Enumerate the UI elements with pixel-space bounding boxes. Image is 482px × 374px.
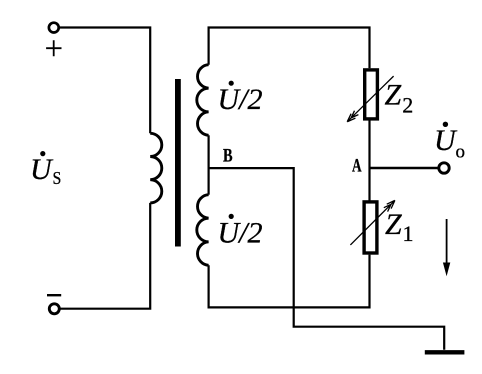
variable impedance arrow Z1 xyxy=(350,200,395,245)
terminal Uo (output) xyxy=(439,163,449,173)
plus sign xyxy=(46,40,61,56)
terminal + (source positive) xyxy=(49,23,59,33)
label Us xyxy=(30,151,61,188)
svg-text:1: 1 xyxy=(403,221,414,246)
wire node B tap xyxy=(209,167,294,169)
resistor Z2 xyxy=(365,70,378,119)
wire secondary bottom rail to Z1 bottom xyxy=(209,255,370,308)
label Uo xyxy=(434,122,465,163)
wire Z2 to Z1 through node A xyxy=(368,119,370,203)
wire secondary middle xyxy=(208,135,210,194)
transformer secondary lower winding xyxy=(197,195,209,266)
resistor Z1 xyxy=(364,202,377,253)
label U/2 lower xyxy=(218,214,263,250)
label U/2 upper xyxy=(218,81,263,116)
svg-text:U/2: U/2 xyxy=(218,217,263,250)
svg-text:U/2: U/2 xyxy=(218,83,263,116)
variable impedance arrow Z2 xyxy=(347,76,393,122)
transformer primary winding xyxy=(150,133,162,203)
svg-text:2: 2 xyxy=(402,92,413,117)
label Z2 xyxy=(385,79,414,118)
svg-text:o: o xyxy=(456,142,466,163)
transformer secondary upper winding xyxy=(197,65,209,136)
transformer core xyxy=(175,79,181,247)
wire from primary bottom to - terminal xyxy=(61,203,151,309)
svg-text:U: U xyxy=(30,153,54,186)
wire B to ground xyxy=(294,167,445,350)
wire node A to output terminal xyxy=(370,167,438,169)
svg-text:Z: Z xyxy=(385,208,402,241)
svg-text:B: B xyxy=(223,146,233,167)
svg-text:U: U xyxy=(434,124,458,157)
svg-text:A: A xyxy=(352,155,362,176)
label Z1 xyxy=(385,208,414,246)
terminal - (source negative) xyxy=(49,304,59,314)
svg-text:S: S xyxy=(53,168,62,188)
ground xyxy=(425,350,465,354)
wire from + terminal to primary top xyxy=(59,28,150,134)
current arrow (output direction) xyxy=(443,219,450,276)
svg-text:Z: Z xyxy=(385,79,402,112)
wire secondary top lead xyxy=(209,28,370,69)
minus sign xyxy=(47,294,61,296)
